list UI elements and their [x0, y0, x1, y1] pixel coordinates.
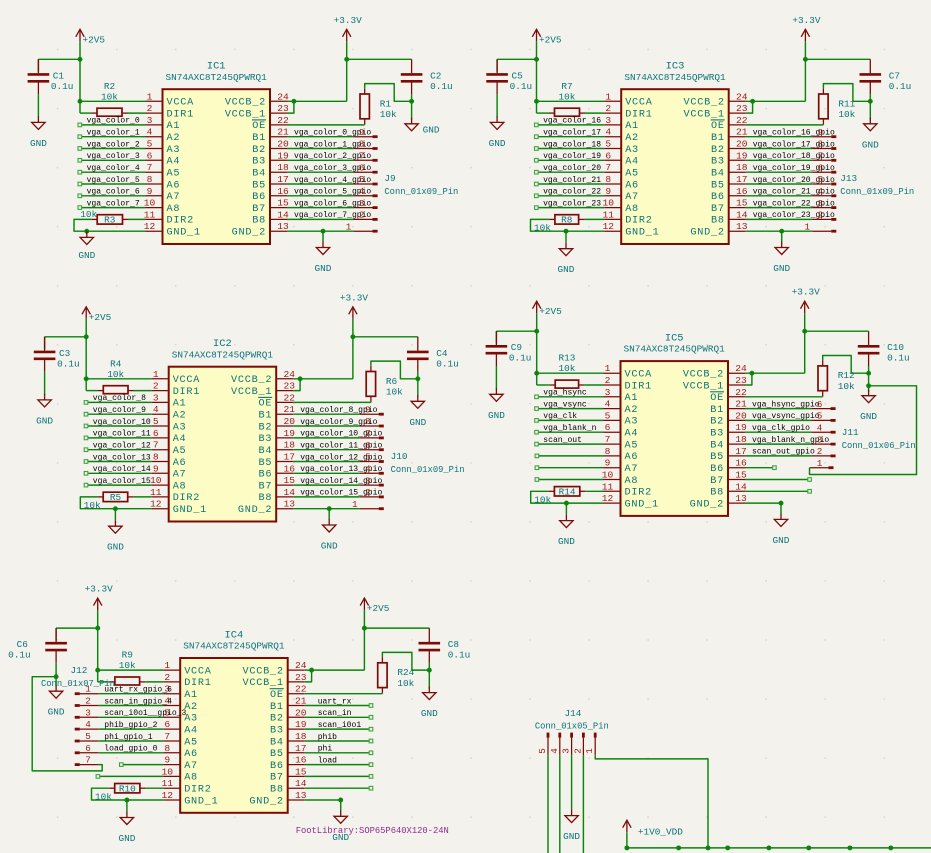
svg-text:VCCB_1: VCCB_1 [231, 387, 272, 398]
svg-text:12: 12 [161, 790, 173, 801]
wire [74, 219, 146, 231]
connector pin 5 [354, 174, 378, 185]
wire [781, 231, 783, 242]
wire [305, 705, 370, 707]
svg-text:R13: R13 [558, 353, 575, 364]
svg-text:10k: 10k [380, 109, 397, 120]
junction [113, 506, 118, 511]
svg-text:SN74AXC8T245QPWRQ1: SN74AXC8T245QPWRQ1 [183, 641, 285, 652]
svg-text:5: 5 [365, 452, 371, 463]
node vga_color_18 [535, 140, 602, 150]
svg-text:B1: B1 [711, 133, 725, 144]
junction [868, 99, 873, 104]
value 10k [80, 209, 97, 220]
junction [321, 229, 326, 234]
power +2V5 [532, 29, 562, 45]
IC IC3 SN74AXC8T245QPWRQ1 [621, 61, 729, 244]
wire [32, 677, 102, 771]
connector pin 1 [810, 458, 834, 469]
wire [293, 401, 371, 404]
wire [126, 800, 128, 812]
node vga_color_13 [84, 453, 151, 463]
svg-text:vga_color_2: vga_color_2 [87, 140, 140, 149]
connector pin 1 [584, 733, 595, 756]
wire [99, 728, 164, 730]
node vga_color_12 [84, 442, 151, 452]
connector J9 [384, 173, 458, 197]
IC pins [146, 101, 288, 231]
junction [725, 845, 730, 850]
node vga_color_9 [84, 406, 146, 416]
svg-text:GND: GND [321, 541, 338, 552]
svg-text:0.1u: 0.1u [510, 81, 533, 92]
svg-text:A1: A1 [625, 121, 639, 132]
wire [99, 716, 164, 718]
wire [537, 331, 604, 385]
svg-text:R6: R6 [386, 376, 398, 387]
wire [411, 94, 413, 119]
connector pin 9 [354, 127, 378, 138]
junction [95, 626, 100, 631]
svg-text:2: 2 [147, 103, 153, 114]
IC IC2 SN74AXC8T245QPWRQ1 [169, 338, 277, 521]
svg-text:B1: B1 [258, 411, 272, 422]
connector J10 [391, 451, 465, 475]
svg-text:0.1u: 0.1u [8, 650, 31, 661]
svg-text:6: 6 [153, 428, 159, 439]
svg-text:6: 6 [818, 162, 824, 173]
node vga_color_16 [535, 117, 602, 127]
svg-text:+2V5: +2V5 [367, 603, 390, 614]
svg-text:J9: J9 [384, 173, 395, 184]
ground [558, 243, 575, 276]
svg-text:B5: B5 [711, 180, 725, 191]
node vga_color_21 [535, 176, 602, 186]
svg-text:+2V5: +2V5 [539, 34, 562, 45]
wire [538, 207, 604, 209]
svg-text:A5: A5 [625, 169, 639, 180]
svg-text:4: 4 [817, 422, 823, 433]
ground [405, 118, 440, 136]
resistor R12 [818, 366, 855, 392]
junction [95, 668, 100, 673]
svg-text:uart_rx: uart_rx [318, 697, 352, 706]
connector pin 3 [561, 733, 572, 756]
wire [538, 443, 603, 445]
svg-text:VCCA: VCCA [625, 98, 653, 109]
svg-text:A7: A7 [625, 464, 639, 475]
junction [344, 57, 349, 62]
wire [37, 94, 39, 117]
svg-text:R7: R7 [561, 81, 572, 92]
svg-text:OE: OE [711, 121, 725, 132]
connector pin 3 [354, 198, 378, 209]
svg-text:GND: GND [107, 542, 124, 553]
capacitor C5 [486, 59, 532, 94]
capacitor C1 [28, 59, 74, 94]
svg-text:B3: B3 [711, 157, 725, 168]
svg-text:DIR1: DIR1 [625, 109, 652, 120]
svg-text:6: 6 [365, 440, 371, 451]
svg-text:C8: C8 [448, 639, 460, 650]
node vga_hsync [535, 389, 587, 399]
resistor R24 [378, 663, 415, 689]
svg-text:2: 2 [817, 446, 823, 457]
wire [745, 419, 812, 421]
svg-text:4: 4 [365, 464, 371, 475]
wire [88, 413, 152, 415]
svg-text:4: 4 [359, 186, 365, 197]
svg-text:A7: A7 [184, 761, 198, 772]
node vga_color_15 [84, 477, 151, 487]
svg-text:7: 7 [605, 162, 611, 173]
node vga_clk [535, 412, 578, 422]
wire [746, 183, 813, 185]
svg-text:B3: B3 [258, 434, 272, 445]
svg-text:1: 1 [153, 369, 159, 380]
svg-text:GND_2: GND_2 [690, 499, 724, 510]
svg-text:B8: B8 [270, 785, 284, 796]
connector pin 2 [812, 446, 836, 457]
svg-text:8: 8 [365, 416, 371, 427]
svg-text:vga_color_19: vga_color_19 [543, 152, 601, 161]
wire [496, 94, 498, 117]
power +2V5 [360, 598, 390, 614]
svg-text:A2: A2 [625, 133, 639, 144]
node vga_color_5_gpio [294, 188, 371, 197]
svg-text:+3.3V: +3.3V [792, 15, 821, 26]
svg-text:B3: B3 [270, 725, 284, 736]
wire [82, 148, 146, 150]
svg-text:4: 4 [147, 127, 153, 138]
svg-text:10k: 10k [559, 91, 576, 102]
node vga_color_11_gpio [300, 442, 382, 451]
stub [370, 366, 372, 402]
wire [45, 319, 87, 349]
wire [98, 628, 164, 682]
connector pin 2 [572, 733, 583, 756]
svg-text:1: 1 [85, 684, 91, 695]
svg-text:B7: B7 [252, 204, 266, 215]
junction [803, 57, 808, 62]
wire [745, 431, 812, 433]
svg-text:GND: GND [773, 263, 790, 274]
connector pin 4 [549, 733, 560, 756]
node vga_color_0 [78, 117, 140, 127]
connector J14 [535, 708, 609, 732]
ground [558, 515, 575, 548]
svg-text:scan_out_gpio: scan_out_gpio [752, 448, 815, 457]
wire [82, 183, 146, 185]
svg-text:A5: A5 [167, 169, 181, 180]
wire [82, 136, 146, 138]
wire [145, 681, 163, 683]
wire [305, 752, 370, 754]
wire [746, 136, 813, 138]
svg-text:GND_1: GND_1 [625, 228, 659, 239]
svg-text:Conn_01x09_Pin: Conn_01x09_Pin [840, 187, 914, 197]
svg-text:A6: A6 [625, 452, 639, 463]
svg-text:7: 7 [359, 151, 365, 162]
svg-text:DIR2: DIR2 [184, 785, 211, 796]
wire [293, 437, 360, 439]
wire [538, 419, 603, 421]
wire [746, 218, 813, 220]
wire [539, 479, 604, 481]
svg-text:vga_color_14: vga_color_14 [93, 465, 151, 474]
junction [779, 229, 784, 234]
wire end [369, 775, 373, 779]
junction [338, 798, 343, 803]
wire [305, 787, 370, 789]
svg-text:VCCB_2: VCCB_2 [243, 666, 284, 677]
svg-text:8: 8 [164, 743, 170, 754]
svg-text:A3: A3 [625, 145, 639, 156]
svg-text:B4: B4 [710, 440, 724, 451]
svg-text:A1: A1 [184, 690, 198, 701]
node scan_out [535, 436, 582, 446]
svg-text:2: 2 [85, 696, 91, 707]
svg-text:J13: J13 [840, 173, 857, 184]
connector pin 2 [812, 210, 836, 221]
wire [287, 148, 354, 150]
svg-text:A1: A1 [167, 121, 181, 132]
svg-text:B2: B2 [252, 145, 266, 156]
junction [847, 845, 852, 850]
wire [293, 461, 360, 463]
connector pin 9 [812, 127, 836, 138]
svg-text:7: 7 [147, 162, 153, 173]
svg-text:1: 1 [817, 458, 823, 469]
wire [287, 101, 294, 113]
svg-text:A4: A4 [173, 434, 187, 445]
svg-text:B5: B5 [710, 452, 724, 463]
wire [99, 693, 164, 695]
svg-text:6: 6 [85, 743, 91, 754]
junction [888, 845, 893, 850]
node vga_color_17_gpio [753, 140, 835, 149]
svg-text:DIR2: DIR2 [625, 488, 652, 499]
value 10k [84, 500, 101, 511]
connector pin 3 [360, 475, 384, 486]
IC pins [604, 373, 746, 503]
svg-text:B6: B6 [270, 761, 284, 772]
svg-text:DIR2: DIR2 [167, 216, 194, 227]
wire [823, 84, 870, 102]
svg-text:1: 1 [605, 363, 611, 374]
svg-text:B5: B5 [258, 458, 272, 469]
wire [44, 372, 46, 395]
svg-text:C2: C2 [430, 70, 441, 81]
svg-text:vga_color_3: vga_color_3 [87, 152, 140, 161]
stub [364, 88, 366, 124]
power +1V0_VDD [623, 820, 684, 837]
wire [287, 230, 354, 232]
resistor R10 [109, 784, 145, 795]
wire [539, 467, 604, 469]
resistor R13 [550, 353, 584, 388]
svg-text:VCCB_1: VCCB_1 [243, 678, 284, 689]
IC IC1 SN74AXC8T245QPWRQ1 [163, 61, 271, 244]
wire [559, 755, 561, 853]
wire [293, 508, 360, 510]
svg-text:C3: C3 [59, 348, 71, 359]
svg-text:+3.3V: +3.3V [85, 584, 114, 595]
svg-text:Conn_01x05_Pin: Conn_01x05_Pin [535, 722, 609, 732]
connector J11 [842, 427, 916, 451]
svg-text:3: 3 [561, 748, 572, 754]
svg-text:B7: B7 [258, 481, 272, 492]
svg-text:vga_color_16: vga_color_16 [543, 117, 601, 126]
power +2V5 [82, 307, 112, 323]
wire [80, 59, 146, 113]
svg-text:A5: A5 [173, 446, 187, 457]
node vga_color_19 [535, 152, 602, 162]
wire [538, 183, 604, 185]
junction [676, 845, 681, 850]
svg-text:3: 3 [359, 198, 365, 209]
capacitor C4 [407, 337, 459, 372]
connector J13 [840, 173, 914, 197]
value 10k [534, 223, 551, 234]
svg-text:vga_color_17: vga_color_17 [543, 129, 601, 138]
svg-text:A4: A4 [625, 157, 639, 168]
svg-text:B5: B5 [252, 180, 266, 191]
wire [86, 337, 152, 391]
svg-text:5: 5 [359, 174, 365, 185]
svg-text:B2: B2 [710, 417, 724, 428]
svg-text:A4: A4 [167, 157, 181, 168]
svg-text:1: 1 [805, 221, 811, 232]
svg-text:vga_color_0: vga_color_0 [87, 117, 140, 126]
svg-text:5: 5 [153, 416, 159, 427]
svg-text:B8: B8 [258, 493, 272, 504]
junction [409, 99, 414, 104]
connector pin 5 [812, 411, 836, 422]
svg-text:C9: C9 [511, 342, 522, 353]
wire [627, 832, 931, 848]
wire [746, 195, 813, 197]
svg-text:scan_in_gpio_4: scan_in_gpio_4 [104, 697, 172, 706]
node vga_color_1 [78, 129, 140, 139]
node scan_i0o1 [318, 721, 373, 731]
svg-text:7: 7 [365, 428, 371, 439]
svg-text:SN74AXC8T245QPWRQ1: SN74AXC8T245QPWRQ1 [172, 349, 274, 360]
connector pin 4 [75, 719, 99, 730]
svg-text:DIR1: DIR1 [167, 109, 194, 120]
node vga_color_2_gpio [294, 152, 371, 161]
svg-text:10k: 10k [534, 495, 551, 506]
IC pins [604, 101, 746, 231]
connector pin 7 [812, 151, 836, 162]
svg-text:5: 5 [605, 410, 611, 421]
svg-text:9: 9 [605, 458, 611, 469]
svg-text:GND: GND [860, 411, 877, 422]
svg-text:B1: B1 [710, 405, 724, 416]
capacitor C2 [401, 59, 453, 94]
power +2V5 [533, 301, 563, 317]
svg-text:1: 1 [605, 91, 611, 102]
svg-text:2: 2 [153, 381, 159, 392]
svg-text:B4: B4 [270, 737, 284, 748]
node vga_color_6 [78, 188, 140, 198]
svg-text:vga_clk_gpio: vga_clk_gpio [752, 424, 810, 433]
svg-text:A8: A8 [184, 773, 198, 784]
svg-text:8: 8 [147, 174, 153, 185]
pin names [167, 98, 267, 239]
svg-text:DIR2: DIR2 [173, 493, 200, 504]
connector pin 8 [354, 139, 378, 150]
wire [88, 401, 152, 403]
wire [417, 372, 419, 397]
wire [595, 755, 708, 848]
svg-text:GND: GND [315, 263, 332, 274]
junction [534, 371, 539, 376]
svg-text:scan_i0o1: scan_i0o1 [318, 721, 362, 730]
wire [293, 496, 360, 498]
IC IC5 SN74AXC8T245QPWRQ1 [621, 333, 729, 516]
wire [565, 231, 567, 243]
svg-text:8: 8 [605, 174, 611, 185]
svg-text:2: 2 [605, 375, 611, 386]
wire [123, 764, 163, 766]
resistor R1 [360, 94, 397, 120]
svg-text:vga_color_21: vga_color_21 [543, 176, 601, 185]
node load_gpio_0 [104, 745, 157, 754]
node vga_color_4 [78, 164, 140, 174]
svg-text:VCCB_2: VCCB_2 [225, 98, 266, 109]
wire [99, 752, 164, 754]
svg-text:SN74AXC8T245QPWRQ1: SN74AXC8T245QPWRQ1 [166, 72, 268, 83]
node vga_color_15_gpio [300, 489, 382, 498]
svg-text:0.1u: 0.1u [887, 353, 910, 364]
wire [56, 610, 98, 640]
value 10k [95, 792, 112, 803]
svg-text:B7: B7 [710, 476, 724, 487]
wire end [96, 775, 100, 779]
svg-text:A8: A8 [173, 481, 187, 492]
svg-text:VCCA: VCCA [167, 98, 195, 109]
wire [100, 775, 164, 777]
svg-text:B3: B3 [252, 157, 266, 168]
svg-text:8: 8 [605, 446, 611, 457]
svg-text:R1: R1 [380, 98, 392, 109]
resistor R7 [549, 81, 585, 116]
junction [750, 99, 755, 104]
svg-text:vga_color_11: vga_color_11 [93, 430, 151, 439]
pin names [173, 375, 273, 516]
node vga_color_8 [84, 394, 146, 404]
svg-text:10k: 10k [80, 209, 97, 220]
power +3.3V [85, 584, 114, 611]
svg-text:R2: R2 [104, 81, 115, 92]
wire [99, 705, 164, 707]
wire [305, 716, 370, 718]
svg-text:11: 11 [144, 209, 156, 220]
node vga_color_3 [78, 152, 140, 162]
junction [84, 334, 89, 339]
wire [82, 207, 146, 209]
ground [862, 118, 879, 151]
node vga_color_8_gpio [300, 406, 377, 415]
svg-text:6: 6 [605, 150, 611, 161]
junction [327, 506, 332, 511]
node vga_color_12_gpio [300, 453, 382, 462]
pin names [625, 370, 725, 511]
svg-text:7: 7 [164, 731, 170, 742]
node vga_color_22_gpio [753, 199, 835, 208]
svg-text:Conn_01x09_Pin: Conn_01x09_Pin [391, 465, 465, 475]
